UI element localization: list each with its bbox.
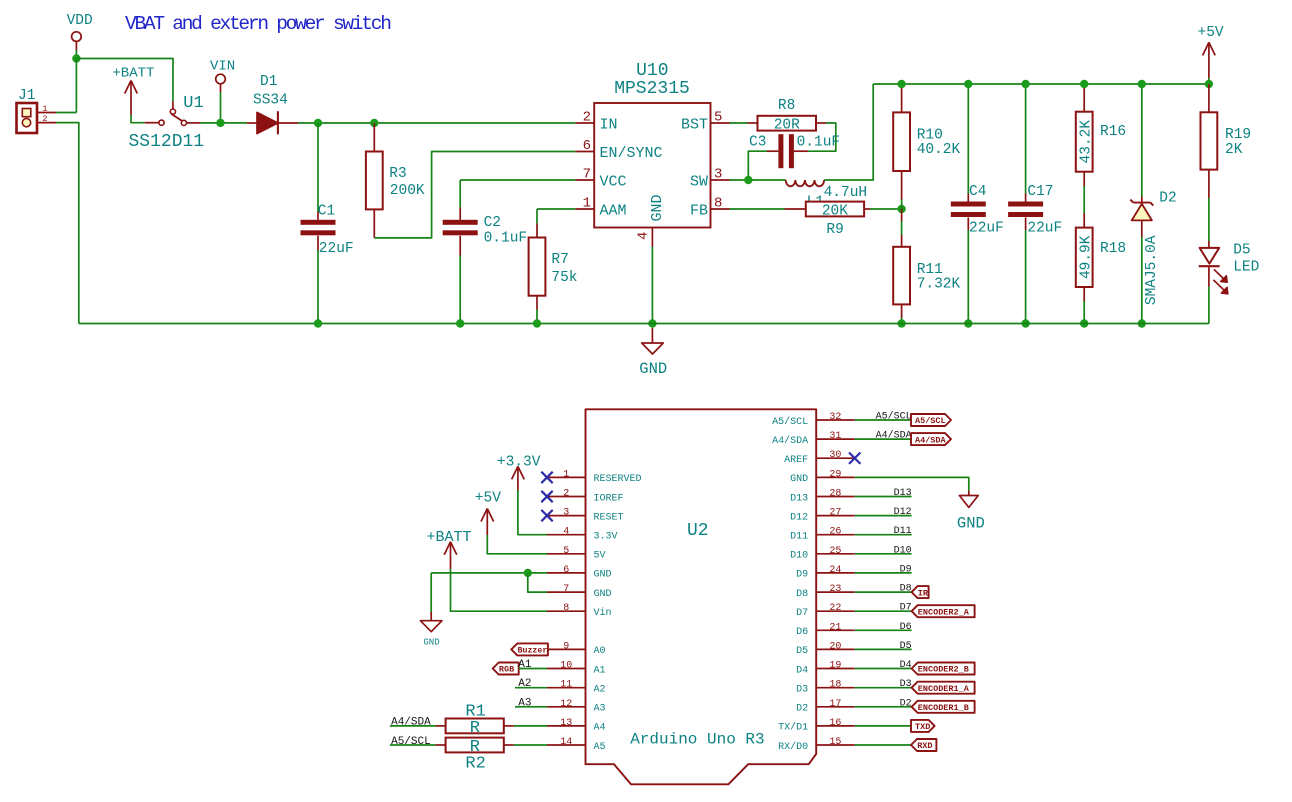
pin 19 D4 of U2 bbox=[796, 661, 855, 677]
svg-text:AAM: AAM bbox=[600, 202, 627, 219]
pin 5 5V of U2 bbox=[547, 546, 606, 562]
svg-text:D6: D6 bbox=[796, 627, 808, 638]
junction R16 top bbox=[1080, 80, 1088, 88]
svg-text:D1: D1 bbox=[260, 74, 277, 90]
hierarchical label RGB bbox=[493, 663, 519, 675]
resistor R10 bbox=[893, 84, 960, 209]
svg-text:A5/SCL: A5/SCL bbox=[915, 416, 946, 426]
svg-text:+3.3V: +3.3V bbox=[497, 454, 541, 470]
svg-text:R3: R3 bbox=[389, 166, 406, 182]
local label D8 bbox=[900, 584, 912, 595]
svg-text:7: 7 bbox=[583, 167, 591, 183]
svg-text:D6: D6 bbox=[900, 622, 912, 633]
wire +5V to pin 5 bbox=[487, 535, 547, 554]
pin 18 D3 of U2 bbox=[796, 680, 855, 696]
svg-text:4: 4 bbox=[636, 232, 652, 240]
svg-text:28: 28 bbox=[829, 489, 841, 500]
junction VIN node bbox=[216, 119, 224, 127]
resistor R18 bbox=[1076, 213, 1126, 324]
svg-text:D5: D5 bbox=[796, 646, 808, 657]
svg-text:19: 19 bbox=[829, 661, 841, 672]
ground symbol bottom left bbox=[420, 612, 442, 648]
pin 22 D7 of U2 bbox=[796, 603, 855, 619]
wire D5 to GND rail bbox=[1208, 287, 1210, 324]
wire switch to D1 bbox=[200, 122, 247, 124]
svg-text:14: 14 bbox=[560, 737, 572, 748]
svg-text:2: 2 bbox=[563, 489, 569, 500]
svg-text:D13: D13 bbox=[894, 488, 912, 499]
svg-text:D9: D9 bbox=[796, 570, 808, 581]
wire D1 to U10 IN bbox=[298, 122, 575, 124]
connector J1 bbox=[17, 88, 38, 133]
svg-text:3: 3 bbox=[563, 508, 569, 519]
local label D5 bbox=[900, 641, 912, 652]
svg-text:200K: 200K bbox=[390, 183, 425, 199]
svg-text:4.7uH: 4.7uH bbox=[824, 185, 868, 201]
pin 4 GND of U10 bbox=[636, 194, 667, 246]
svg-text:C1: C1 bbox=[318, 204, 335, 220]
junction C17 bottom bbox=[1021, 319, 1029, 327]
resistor R1 bbox=[436, 702, 514, 737]
local label A2 bbox=[518, 678, 531, 690]
svg-text:0.1uF: 0.1uF bbox=[797, 135, 841, 151]
svg-text:RESET: RESET bbox=[594, 512, 624, 523]
hierarchical label ENCODER2_B bbox=[912, 663, 975, 675]
svg-text:22: 22 bbox=[829, 603, 841, 614]
no-connect pin 3 bbox=[541, 510, 552, 521]
pin 9 A0 of U2 bbox=[547, 641, 606, 657]
svg-text:20R: 20R bbox=[774, 118, 800, 134]
diode D1 SS34 bbox=[247, 74, 298, 134]
capacitor C17 bbox=[1008, 84, 1062, 324]
svg-text:+BATT: +BATT bbox=[112, 66, 154, 82]
wire L1 to output rail bbox=[824, 84, 873, 180]
svg-text:D11: D11 bbox=[790, 532, 808, 543]
svg-text:IR: IR bbox=[918, 588, 929, 598]
hierarchical label A4/SDA bbox=[911, 433, 951, 445]
svg-text:+BATT: +BATT bbox=[427, 529, 472, 546]
hierarchical label Buzzer bbox=[511, 643, 548, 655]
svg-text:A2: A2 bbox=[518, 678, 531, 690]
svg-text:8: 8 bbox=[714, 196, 722, 212]
pin 12 A3 of U2 bbox=[547, 699, 606, 715]
pin 16 TX/D1 of U2 bbox=[778, 718, 855, 734]
wire R7 to AAM bbox=[537, 208, 575, 210]
resistor R7 bbox=[529, 209, 578, 324]
svg-text:J1: J1 bbox=[18, 88, 35, 104]
pin 20 D5 of U2 bbox=[796, 641, 855, 657]
capacitor C3 bbox=[749, 134, 840, 168]
svg-text:2: 2 bbox=[42, 114, 47, 124]
wire A4/SDA to R1 bbox=[390, 725, 436, 727]
svg-text:ENCODER1_B: ENCODER1_B bbox=[918, 703, 969, 713]
junction FB divider node bbox=[897, 205, 905, 213]
wire +BATT to switch bbox=[131, 115, 145, 123]
wire VDD down to J1 pin1 bbox=[75, 59, 77, 113]
svg-text:25: 25 bbox=[829, 546, 841, 557]
wire pin row D10 bbox=[855, 553, 912, 555]
local label D6 bbox=[900, 622, 912, 633]
svg-text:MPS2315: MPS2315 bbox=[614, 79, 690, 99]
pin 8 FB of U10 bbox=[690, 196, 730, 220]
junction C4 top bbox=[964, 80, 972, 88]
svg-text:ENCODER1_A: ENCODER1_A bbox=[918, 684, 970, 694]
wire pin row D7 bbox=[855, 610, 912, 612]
no-connect pin 1 bbox=[541, 472, 552, 483]
svg-text:13: 13 bbox=[560, 718, 572, 729]
junction R3 node bbox=[370, 119, 378, 127]
svg-text:D7: D7 bbox=[796, 608, 808, 619]
svg-text:U1: U1 bbox=[183, 94, 203, 113]
svg-text:D8: D8 bbox=[796, 589, 808, 600]
svg-text:A2: A2 bbox=[594, 685, 606, 696]
wire A2 to pin 11 bbox=[515, 687, 547, 689]
wire A5/SCL to R2 bbox=[390, 744, 436, 746]
local label D4 bbox=[900, 660, 912, 671]
junction R11 bottom bbox=[897, 319, 905, 327]
svg-text:A1: A1 bbox=[518, 659, 532, 671]
wire GND branch to pin 7 bbox=[528, 573, 547, 592]
resistor R9 bbox=[785, 202, 871, 238]
svg-text:40.2K: 40.2K bbox=[917, 142, 961, 158]
wire R8 to C3 bbox=[808, 123, 836, 151]
local label A3 bbox=[518, 697, 531, 709]
svg-text:Buzzer: Buzzer bbox=[518, 647, 548, 656]
svg-text:VIN: VIN bbox=[210, 59, 235, 75]
svg-text:C3: C3 bbox=[749, 135, 766, 151]
svg-text:R2: R2 bbox=[465, 754, 485, 773]
svg-text:R18: R18 bbox=[1100, 241, 1126, 257]
svg-text:GND: GND bbox=[790, 474, 808, 485]
wire J1 pin2 to GND rail bbox=[56, 123, 79, 324]
pin 29 GND of U2 bbox=[790, 469, 855, 485]
svg-text:D12: D12 bbox=[894, 507, 912, 518]
svg-text:SS12D11: SS12D11 bbox=[129, 132, 205, 152]
svg-text:R9: R9 bbox=[826, 222, 843, 238]
pin 26 D11 of U2 bbox=[790, 527, 855, 543]
wire BST to R8 bbox=[730, 122, 748, 124]
svg-text:D10: D10 bbox=[894, 545, 912, 556]
wire R2 to pin 14 bbox=[514, 744, 547, 746]
svg-text:GND: GND bbox=[957, 514, 985, 532]
pin 2 IN of U10 bbox=[575, 110, 617, 134]
svg-text:D5: D5 bbox=[900, 641, 912, 652]
local label D12 bbox=[894, 507, 912, 518]
svg-text:U2: U2 bbox=[687, 521, 709, 541]
svg-text:GND: GND bbox=[649, 194, 666, 221]
pin 27 D12 of U2 bbox=[790, 508, 855, 524]
wire pin 29 GND bbox=[855, 477, 969, 490]
junction R18 bottom bbox=[1080, 319, 1088, 327]
local label A5/SCL left bbox=[391, 736, 431, 748]
junction GND branch bbox=[524, 569, 532, 577]
svg-text:D5: D5 bbox=[1233, 242, 1250, 258]
junction U10 GND node bbox=[648, 319, 656, 327]
wire +5V output rail bbox=[873, 83, 1209, 85]
wire pin row D5 bbox=[855, 648, 912, 650]
svg-text:2K: 2K bbox=[1225, 142, 1243, 158]
svg-text:A4: A4 bbox=[594, 723, 606, 734]
svg-text:AREF: AREF bbox=[784, 455, 808, 466]
svg-text:1: 1 bbox=[563, 469, 569, 480]
pin 11 A2 of U2 bbox=[547, 680, 606, 696]
svg-text:GND: GND bbox=[423, 638, 439, 648]
wire pin 16 to TXD bbox=[855, 725, 911, 727]
svg-text:A1: A1 bbox=[594, 665, 606, 676]
svg-text:RESERVED: RESERVED bbox=[594, 474, 642, 485]
wire pin row D4 bbox=[855, 668, 912, 670]
svg-text:0.1uF: 0.1uF bbox=[484, 231, 528, 247]
pin 10 A1 of U2 bbox=[547, 661, 606, 677]
svg-text:GND: GND bbox=[594, 570, 612, 581]
svg-text:C17: C17 bbox=[1027, 184, 1053, 200]
wire SW to L1 bbox=[730, 179, 786, 181]
wire pin row D13 bbox=[855, 496, 912, 498]
junction C4 bottom bbox=[964, 319, 972, 327]
wire VDD stem bbox=[75, 50, 77, 59]
junction VDD node bbox=[72, 54, 80, 62]
local label D13 bbox=[894, 488, 912, 499]
junction C2 bottom bbox=[456, 319, 464, 327]
svg-text:RGB: RGB bbox=[499, 665, 514, 675]
pin 1 of J1 bbox=[37, 104, 56, 114]
power flag VIN bbox=[210, 59, 235, 93]
wire J1 pin1 to VDD net bbox=[56, 112, 76, 114]
svg-text:10: 10 bbox=[560, 661, 572, 672]
junction C17 top bbox=[1021, 80, 1029, 88]
wire pin row D12 bbox=[855, 515, 912, 517]
wire +5V stem bbox=[1208, 78, 1210, 84]
svg-text:RXD: RXD bbox=[917, 741, 932, 751]
wire R9 to divider node bbox=[870, 208, 902, 210]
wire pin 32 to A5/SCL label bbox=[855, 419, 911, 421]
hierarchical label ENCODER1_B bbox=[912, 701, 975, 713]
wire pin 31 to A4/SDA label bbox=[855, 438, 911, 440]
title text bbox=[125, 13, 390, 35]
wire RGB to pin 10 bbox=[519, 668, 547, 670]
svg-text:BST: BST bbox=[681, 116, 708, 133]
pin 7 VCC of U10 bbox=[575, 167, 626, 191]
svg-text:+5V: +5V bbox=[475, 491, 501, 507]
svg-text:IN: IN bbox=[600, 116, 618, 133]
power flag +BATT bottom bbox=[427, 529, 472, 569]
no-connect pin 2 bbox=[541, 491, 552, 502]
svg-text:29: 29 bbox=[829, 469, 841, 480]
svg-text:18: 18 bbox=[829, 680, 841, 691]
junction C1 node bbox=[314, 119, 322, 127]
pin 4 3.3V of U2 bbox=[547, 527, 618, 543]
svg-text:20: 20 bbox=[829, 641, 841, 652]
wire VIN stem bbox=[220, 92, 222, 123]
svg-text:C2: C2 bbox=[484, 215, 501, 231]
resistor R11 bbox=[893, 209, 960, 324]
svg-text:GND: GND bbox=[594, 589, 612, 600]
svg-text:R: R bbox=[470, 719, 480, 738]
svg-text:43.2K: 43.2K bbox=[1079, 120, 1095, 164]
local label D11 bbox=[894, 526, 912, 537]
capacitor C4 bbox=[951, 84, 1004, 324]
svg-text:7.32K: 7.32K bbox=[917, 276, 961, 292]
junction R7 bottom bbox=[533, 319, 541, 327]
inductor L1 bbox=[786, 180, 867, 211]
svg-text:A5/SCL: A5/SCL bbox=[876, 411, 912, 423]
svg-text:3: 3 bbox=[714, 167, 722, 183]
local label D2 bbox=[900, 698, 912, 709]
svg-text:26: 26 bbox=[829, 527, 841, 538]
svg-text:5V: 5V bbox=[594, 551, 606, 562]
svg-text:9: 9 bbox=[563, 641, 569, 652]
resistor R16 bbox=[1076, 84, 1126, 186]
power flag VDD bbox=[67, 13, 93, 50]
wire VDD to switch bbox=[76, 59, 173, 102]
wire GND to pin 6 bbox=[431, 572, 547, 574]
wire GND down to symbol bbox=[430, 573, 432, 612]
svg-text:1: 1 bbox=[583, 196, 591, 212]
wire R1 to pin 13 bbox=[514, 725, 547, 727]
svg-text:ENCODER2_A: ENCODER2_A bbox=[918, 607, 970, 617]
svg-text:R8: R8 bbox=[778, 98, 795, 114]
svg-text:23: 23 bbox=[829, 584, 841, 595]
junction D2 bottom bbox=[1138, 319, 1146, 327]
svg-text:U10: U10 bbox=[636, 61, 668, 81]
pin 23 D8 of U2 bbox=[796, 584, 855, 600]
pin 30 AREF of U2 bbox=[784, 450, 855, 466]
svg-text:ENCODER2_B: ENCODER2_B bbox=[918, 665, 969, 675]
svg-text:D11: D11 bbox=[894, 526, 912, 537]
pin 13 A4 of U2 bbox=[547, 718, 606, 734]
wire pin row D2 bbox=[855, 706, 912, 708]
pin 25 D10 of U2 bbox=[790, 546, 855, 562]
svg-text:R: R bbox=[470, 738, 480, 757]
wire VCC to C2 bbox=[460, 179, 575, 181]
svg-text:D4: D4 bbox=[900, 660, 912, 671]
svg-text:22uF: 22uF bbox=[969, 220, 1004, 236]
svg-text:30: 30 bbox=[829, 450, 841, 461]
svg-text:A0: A0 bbox=[594, 646, 606, 657]
ground symbol top section bbox=[639, 328, 667, 378]
zener diode D2 SMAJ5.0A bbox=[1130, 84, 1176, 324]
pin 21 D6 of U2 bbox=[796, 622, 855, 638]
pin 17 D2 of U2 bbox=[796, 699, 855, 715]
pin 3 SW of U10 bbox=[690, 167, 730, 191]
svg-text:R7: R7 bbox=[551, 252, 568, 268]
resistor R2 bbox=[436, 738, 514, 774]
svg-text:GND: GND bbox=[639, 360, 667, 378]
wire R16 to R18 bbox=[1083, 186, 1085, 213]
LED D5 bbox=[1199, 241, 1260, 294]
svg-text:D10: D10 bbox=[790, 551, 808, 562]
svg-text:24: 24 bbox=[829, 565, 841, 576]
wire C3 to SW node bbox=[748, 151, 767, 180]
wire pin row D8 bbox=[855, 591, 912, 593]
svg-text:A3: A3 bbox=[518, 697, 531, 709]
wire pin row D11 bbox=[855, 534, 912, 536]
wire R3 to EN/SYNC bbox=[374, 152, 575, 238]
svg-text:20K: 20K bbox=[822, 204, 848, 220]
wire U10 GND to rail bbox=[651, 247, 653, 324]
wire pin row D9 bbox=[855, 572, 912, 574]
pin 8 Vin of U2 bbox=[547, 603, 612, 619]
junction +5V rail bbox=[1205, 80, 1213, 88]
op-amp U10 MPS2315 body bbox=[594, 61, 710, 228]
wire GND rail bottom bbox=[79, 323, 1209, 325]
pin 1 AAM of U10 bbox=[575, 196, 626, 220]
pin 3 RESET of U2 bbox=[547, 508, 624, 524]
svg-text:SW: SW bbox=[690, 173, 708, 190]
hierarchical label IR bbox=[912, 586, 929, 598]
svg-text:22uF: 22uF bbox=[1027, 220, 1062, 236]
svg-text:21: 21 bbox=[829, 622, 841, 633]
svg-text:D2: D2 bbox=[1159, 190, 1176, 206]
svg-text:31: 31 bbox=[829, 431, 841, 442]
junction D2 top bbox=[1138, 80, 1146, 88]
local label D7 bbox=[900, 603, 912, 614]
svg-text:C4: C4 bbox=[969, 184, 986, 200]
svg-text:A5/SCL: A5/SCL bbox=[772, 416, 808, 428]
svg-text:Vin: Vin bbox=[594, 607, 612, 619]
svg-text:SMAJ5.0A: SMAJ5.0A bbox=[1144, 235, 1160, 305]
svg-text:22uF: 22uF bbox=[319, 241, 354, 257]
svg-text:5: 5 bbox=[714, 110, 722, 126]
svg-text:A3: A3 bbox=[594, 704, 606, 715]
svg-text:VCC: VCC bbox=[600, 173, 627, 190]
pin 6 GND of U2 bbox=[547, 565, 612, 581]
svg-text:D12: D12 bbox=[790, 512, 808, 523]
pin 1 RESERVED of U2 bbox=[547, 469, 642, 485]
local label A4/SDA right bbox=[876, 430, 912, 442]
wire +3.3V to pin 4 bbox=[518, 490, 547, 535]
svg-text:D7: D7 bbox=[900, 603, 912, 614]
svg-text:R16: R16 bbox=[1100, 124, 1126, 140]
svg-text:6: 6 bbox=[563, 565, 569, 576]
pin 6 EN/SYNC of U10 bbox=[575, 138, 662, 162]
pin 7 GND of U2 bbox=[547, 584, 612, 600]
svg-text:VBAT and extern power switch: VBAT and extern power switch bbox=[125, 13, 390, 35]
svg-text:27: 27 bbox=[829, 508, 841, 519]
power flag +5V bottom bbox=[475, 491, 501, 535]
svg-text:D13: D13 bbox=[790, 493, 808, 504]
svg-text:VDD: VDD bbox=[67, 13, 93, 29]
MCU module U2 Arduino Uno R3 body bbox=[586, 409, 817, 784]
wire FB to R9 bbox=[730, 208, 785, 210]
svg-text:R19: R19 bbox=[1225, 127, 1251, 143]
hierarchical label ENCODER2_A bbox=[912, 605, 975, 617]
svg-text:16: 16 bbox=[829, 718, 841, 729]
svg-text:7: 7 bbox=[563, 584, 569, 595]
wire pin row D6 bbox=[855, 629, 912, 631]
svg-text:IOREF: IOREF bbox=[594, 493, 624, 504]
junction C1 bottom bbox=[314, 319, 322, 327]
local label D3 bbox=[900, 679, 912, 690]
capacitor C1 bbox=[301, 123, 354, 324]
svg-text:+5V: +5V bbox=[1198, 25, 1224, 41]
svg-text:EN/SYNC: EN/SYNC bbox=[600, 145, 663, 162]
svg-text:A4/SDA: A4/SDA bbox=[915, 435, 947, 445]
svg-text:1: 1 bbox=[42, 104, 47, 114]
wire +BATT to pin 8 Vin bbox=[451, 569, 548, 611]
svg-text:15: 15 bbox=[829, 737, 841, 748]
local label D10 bbox=[894, 545, 912, 556]
ground symbol right bbox=[957, 490, 985, 532]
pin 2 of J1 bbox=[37, 114, 56, 124]
svg-text:A4/SDA: A4/SDA bbox=[876, 430, 912, 442]
svg-text:D3: D3 bbox=[900, 679, 912, 690]
svg-text:32: 32 bbox=[829, 412, 841, 423]
svg-text:A4/SDA: A4/SDA bbox=[772, 435, 808, 447]
svg-text:TX/D1: TX/D1 bbox=[778, 722, 808, 734]
resistor R3 bbox=[366, 123, 425, 238]
local label A5/SCL right bbox=[876, 411, 912, 423]
